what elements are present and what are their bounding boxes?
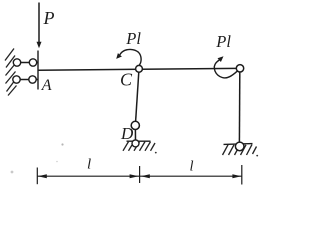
svg-text:C: C — [120, 70, 133, 90]
svg-text:A: A — [41, 77, 52, 94]
svg-text:P: P — [43, 8, 55, 28]
svg-text:l: l — [87, 156, 91, 172]
svg-text:l: l — [190, 158, 194, 174]
svg-text:D: D — [120, 124, 134, 143]
svg-text:Pl: Pl — [215, 32, 231, 51]
svg-text:Pl: Pl — [125, 29, 141, 48]
